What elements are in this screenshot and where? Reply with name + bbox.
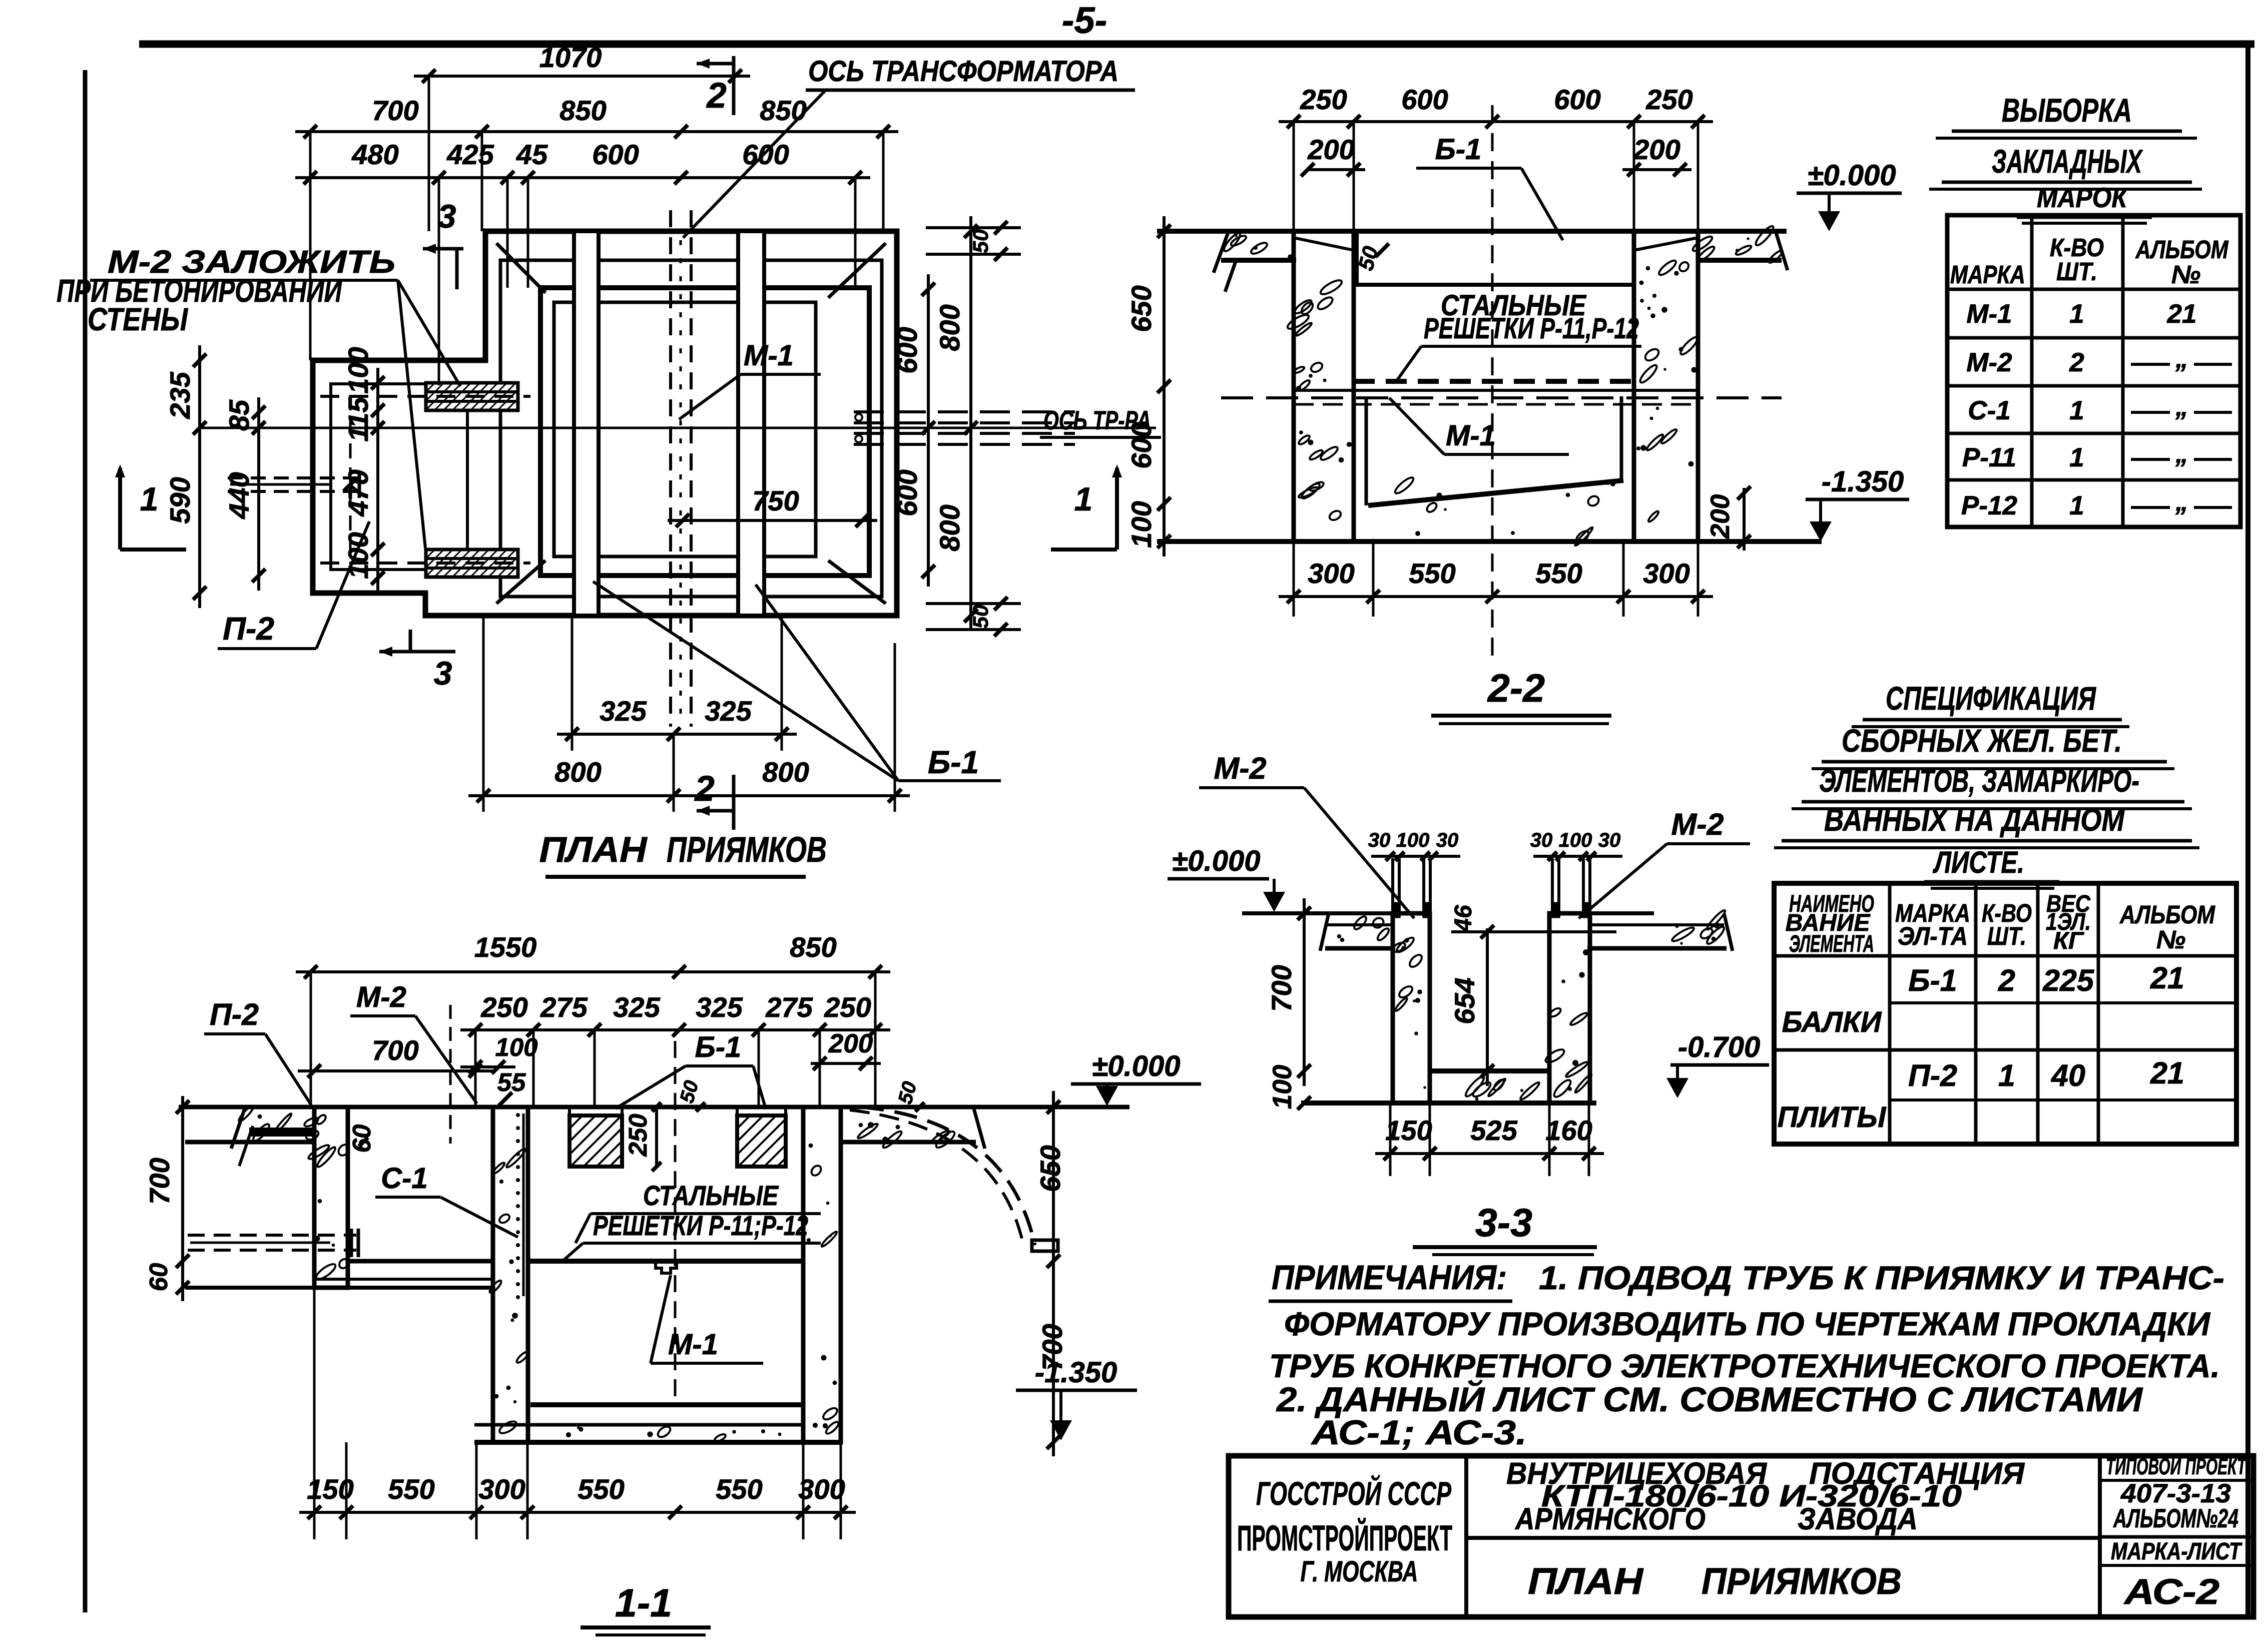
svg-text:„: „ [2175,344,2188,373]
svg-text:ГОССТРОЙ СССР: ГОССТРОЙ СССР [1256,1474,1452,1512]
svg-text:РЕШЕТКИ Р-11,Р-12: РЕШЕТКИ Р-11,Р-12 [1424,312,1639,345]
svg-text:2: 2 [1998,963,2015,997]
svg-text:АС-2: АС-2 [2123,1572,2219,1612]
svg-text:750: 750 [752,485,799,516]
svg-text:200: 200 [1307,134,1354,165]
svg-text:654: 654 [1449,977,1480,1024]
svg-text:ШТ.: ШТ. [2056,257,2097,286]
svg-text:700: 700 [144,1158,175,1204]
svg-text:850: 850 [790,931,836,963]
svg-text:Р-11: Р-11 [1962,443,2016,472]
svg-text:ЗАКЛАДНЫХ: ЗАКЛАДНЫХ [1992,143,2143,180]
svg-text:525: 525 [1470,1115,1517,1146]
svg-text:1550: 1550 [474,931,537,963]
svg-text:30: 30 [1598,829,1621,851]
svg-text:100: 100 [342,347,374,393]
svg-text:-0.700: -0.700 [1678,1031,1760,1063]
svg-text:650: 650 [1034,1145,1066,1192]
svg-text:480: 480 [351,139,398,170]
svg-text:425: 425 [446,139,494,170]
svg-text:550: 550 [1535,558,1582,589]
svg-text:АЛЬБОМ№24: АЛЬБОМ№24 [2113,1504,2238,1533]
svg-text:600: 600 [891,327,923,373]
svg-text:21: 21 [2150,1056,2184,1090]
svg-text:Б-1: Б-1 [1435,133,1482,166]
svg-text:1: 1 [2069,491,2084,520]
svg-text:800: 800 [762,756,809,788]
svg-text:3-3: 3-3 [1475,1200,1532,1245]
svg-text:СТЕНЫ: СТЕНЫ [88,301,189,337]
svg-text:600: 600 [592,139,639,170]
svg-text:800: 800 [554,756,601,788]
svg-text:21: 21 [2150,961,2184,995]
svg-text:М-1: М-1 [1446,419,1496,452]
svg-text:250: 250 [824,991,871,1023]
svg-text:МАРКА-ЛИСТ: МАРКА-ЛИСТ [2111,1538,2242,1565]
svg-text:СПЕЦИФИКАЦИЯ: СПЕЦИФИКАЦИЯ [1886,680,2096,717]
svg-text:50: 50 [969,229,993,253]
svg-text:200: 200 [1633,134,1680,165]
svg-text:250: 250 [1300,84,1347,115]
svg-text:№: № [2156,925,2185,954]
svg-text:1. ПОДВОД ТРУБ К ПРИЯМКУ И ТРА: 1. ПОДВОД ТРУБ К ПРИЯМКУ И ТРАНС- [1539,1259,2224,1296]
svg-text:ПЛИТЫ: ПЛИТЫ [1778,1101,1887,1134]
svg-text:30: 30 [1368,829,1391,851]
svg-text:ЗАВОДА: ЗАВОДА [1798,1502,1918,1536]
svg-text:ОСЬ ТРАНСФОРМАТОРА: ОСЬ ТРАНСФОРМАТОРА [808,55,1118,88]
svg-text:235: 235 [164,371,196,419]
svg-text:ПРИМЕЧАНИЯ:: ПРИМЕЧАНИЯ: [1272,1258,1507,1297]
svg-text:П-2: П-2 [223,611,274,647]
svg-text:±0.000: ±0.000 [1092,1050,1181,1082]
svg-text:МАРКА: МАРКА [1950,260,2025,289]
svg-text:800: 800 [934,304,965,351]
svg-text:-5-: -5- [1062,0,1107,41]
svg-text:40: 40 [2050,1058,2085,1092]
svg-text:М-2: М-2 [1671,807,1724,841]
svg-text:АЛЬБОМ: АЛЬБОМ [2135,235,2229,264]
svg-text:1070: 1070 [539,42,602,73]
svg-text:700: 700 [372,1034,418,1066]
svg-text:160: 160 [1545,1115,1592,1146]
svg-text:2: 2 [2069,348,2084,377]
svg-text:30: 30 [1436,829,1459,851]
svg-text:550: 550 [716,1473,762,1505]
svg-text:600: 600 [1125,422,1157,468]
svg-text:Г. МОСКВА: Г. МОСКВА [1301,1555,1418,1588]
svg-text:850: 850 [559,95,606,126]
svg-text:Б-1: Б-1 [695,1031,742,1063]
svg-text:С-1: С-1 [1968,396,2010,425]
svg-text:325: 325 [705,695,752,727]
svg-text:100: 100 [495,1033,537,1061]
svg-text:250: 250 [480,991,527,1023]
svg-text:600: 600 [891,469,923,516]
svg-text:250: 250 [1645,84,1692,115]
svg-text:ТИПОВОЙ ПРОЕКТ: ТИПОВОЙ ПРОЕКТ [2106,1453,2247,1479]
svg-text:МАРОК: МАРОК [2037,182,2128,213]
svg-text:250: 250 [624,1114,652,1157]
svg-text:СТАЛЬНЫЕ: СТАЛЬНЫЕ [643,1180,779,1211]
svg-text:П-2: П-2 [210,997,259,1031]
svg-text:2-2: 2-2 [1487,666,1545,710]
svg-text:М-2: М-2 [1214,751,1266,785]
svg-text:275: 275 [765,991,813,1023]
svg-text:ЭЛ-ТА: ЭЛ-ТА [1898,922,1968,950]
svg-text:100: 100 [1125,501,1157,547]
svg-text:300: 300 [1643,558,1689,589]
svg-text:ЭЛЕМЕНТА: ЭЛЕМЕНТА [1789,931,1874,957]
svg-text:50: 50 [969,605,993,629]
svg-text:ПРИЯМКОВ: ПРИЯМКОВ [1702,1560,1902,1602]
svg-text:±0.000: ±0.000 [1172,845,1261,877]
svg-text:М-2: М-2 [356,981,406,1013]
svg-text:1: 1 [140,480,159,517]
svg-text:440: 440 [223,472,255,519]
svg-text:Р-12: Р-12 [1961,491,2017,520]
svg-text:М-1: М-1 [1966,299,2012,329]
svg-text:ПРИЯМКОВ: ПРИЯМКОВ [667,830,827,870]
svg-text:100: 100 [1396,829,1430,851]
svg-text:85: 85 [223,399,255,431]
svg-text:СБОРНЫХ ЖЕЛ. БЕТ.: СБОРНЫХ ЖЕЛ. БЕТ. [1842,723,2122,759]
svg-text:1: 1 [2069,299,2084,329]
svg-text:1: 1 [1998,1058,2015,1092]
svg-text:2: 2 [706,76,727,116]
svg-text:ШТ.: ШТ. [1987,922,2026,950]
svg-text:115: 115 [342,397,374,442]
svg-text:ПЛАН: ПЛАН [539,830,648,870]
svg-text:60: 60 [347,1125,376,1153]
svg-text:С-1: С-1 [381,1162,427,1195]
svg-text:АЛЬБОМ: АЛЬБОМ [2119,900,2215,929]
svg-text:-1.350: -1.350 [1822,465,1904,498]
svg-text:200: 200 [828,1029,873,1058]
svg-text:±0.000: ±0.000 [1808,159,1896,192]
svg-text:1: 1 [2069,443,2084,472]
svg-text:300: 300 [1308,558,1354,589]
svg-text:60: 60 [144,1263,173,1292]
svg-text:275: 275 [540,991,588,1023]
svg-text:550: 550 [578,1473,624,1505]
svg-text:150: 150 [1385,1115,1432,1146]
svg-text:ФОРМАТОРУ ПРОИЗВОДИТЬ ПО ЧЕРТЕ: ФОРМАТОРУ ПРОИЗВОДИТЬ ПО ЧЕРТЕЖАМ ПРОКЛА… [1284,1305,2210,1342]
svg-text:30: 30 [1530,829,1553,851]
svg-text:550: 550 [388,1473,434,1505]
svg-text:М-2: М-2 [1966,348,2012,377]
svg-text:100: 100 [1268,1065,1297,1109]
svg-text:№: № [2171,260,2200,289]
svg-text:ПРОМСТРОЙПРОЕКТ: ПРОМСТРОЙПРОЕКТ [1237,1518,1452,1558]
svg-text:700: 700 [1266,965,1297,1011]
svg-text:ВЫБОРКА: ВЫБОРКА [2002,92,2132,129]
svg-text:650: 650 [1125,285,1157,332]
svg-text:600: 600 [742,139,789,170]
svg-text:АС-1; АС-3.: АС-1; АС-3. [1311,1413,1527,1452]
svg-text:45: 45 [516,139,548,170]
svg-text:АРМЯНСКОГО: АРМЯНСКОГО [1514,1502,1706,1536]
svg-text:1-1: 1-1 [615,1580,672,1625]
svg-text:ЛИСТЕ.: ЛИСТЕ. [1933,845,2024,879]
svg-text:1: 1 [2069,396,2084,425]
svg-text:325: 325 [613,991,660,1023]
svg-text:600: 600 [1554,84,1600,115]
svg-text:КГ: КГ [2053,928,2085,954]
svg-text:600: 600 [1401,84,1448,115]
svg-text:2: 2 [694,769,715,809]
svg-text:„: „ [2175,439,2188,468]
svg-text:„: „ [2175,487,2188,516]
svg-text:21: 21 [2167,299,2197,329]
svg-text:225: 225 [2042,963,2094,997]
svg-text:ПЛАН: ПЛАН [1528,1560,1644,1602]
svg-text:1: 1 [1074,480,1093,517]
svg-text:„: „ [2175,392,2188,421]
svg-text:46: 46 [1450,905,1477,932]
svg-text:590: 590 [164,477,196,523]
svg-text:550: 550 [1409,558,1455,589]
svg-text:М-1: М-1 [744,339,794,372]
svg-text:800: 800 [934,504,965,551]
svg-text:300: 300 [478,1473,525,1505]
svg-text:470: 470 [342,469,374,516]
svg-text:200: 200 [1706,494,1735,539]
svg-text:100: 100 [342,532,374,579]
svg-text:ЭЛЕМЕНТОВ, ЗАМАРКИРО-: ЭЛЕМЕНТОВ, ЗАМАРКИРО- [1819,763,2139,799]
svg-text:БАЛКИ: БАЛКИ [1782,1006,1882,1038]
svg-text:3: 3 [438,198,456,235]
svg-text:100: 100 [1559,829,1592,851]
svg-text:700: 700 [372,95,418,126]
svg-text:Б-1: Б-1 [928,744,979,780]
svg-text:ТРУБ КОНКРЕТНОГО ЭЛЕКТРОТЕХНИЧ: ТРУБ КОНКРЕТНОГО ЭЛЕКТРОТЕХНИЧЕСКОГО ПРО… [1269,1347,2220,1384]
svg-text:300: 300 [798,1473,845,1505]
svg-text:П-2: П-2 [1908,1058,1957,1092]
svg-text:3: 3 [434,655,452,692]
svg-text:325: 325 [696,991,743,1023]
svg-text:Б-1: Б-1 [1908,963,1957,997]
svg-text:-1.350: -1.350 [1035,1356,1117,1389]
svg-text:850: 850 [760,95,806,126]
svg-text:325: 325 [600,695,647,727]
svg-text:ВАННЫХ НА ДАННОМ: ВАННЫХ НА ДАННОМ [1824,802,2125,838]
